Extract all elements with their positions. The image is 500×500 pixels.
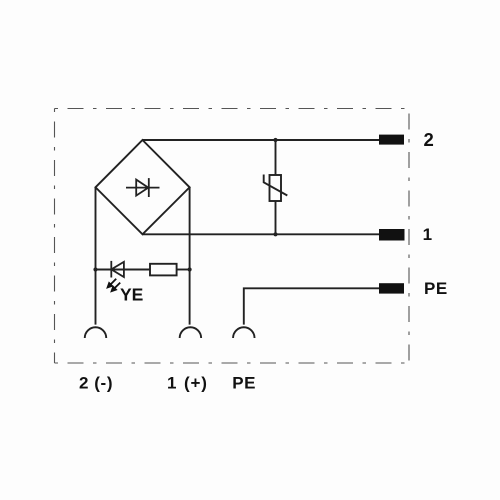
- svg-text:PE: PE: [424, 279, 448, 298]
- svg-text:PE: PE: [232, 373, 256, 392]
- svg-text:YE: YE: [120, 285, 143, 305]
- svg-text:1: 1: [167, 373, 176, 392]
- svg-text:1: 1: [423, 225, 432, 244]
- svg-text:2: 2: [79, 373, 88, 392]
- svg-text:2: 2: [424, 129, 434, 150]
- svg-text:(-): (-): [94, 373, 113, 392]
- svg-text:(+): (+): [184, 373, 208, 392]
